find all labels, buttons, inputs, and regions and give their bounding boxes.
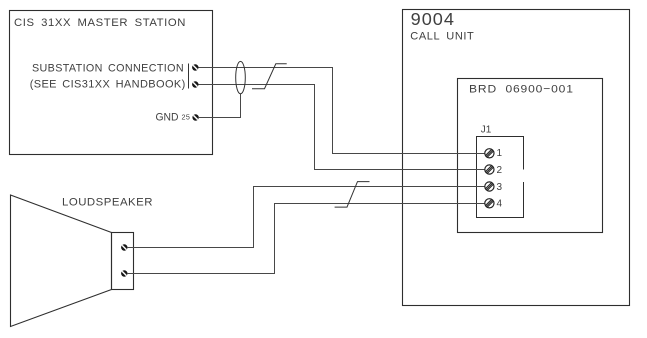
- svg-text:BRD 06900−001: BRD 06900−001: [469, 83, 574, 95]
- svg-text:(SEE CIS31XX HANDBOOK): (SEE CIS31XX HANDBOOK): [30, 78, 186, 90]
- svg-text:CIS 31XX MASTER STATION: CIS 31XX MASTER STATION: [14, 17, 186, 29]
- svg-text:SUBSTATION CONNECTION: SUBSTATION CONNECTION: [32, 62, 184, 74]
- svg-text:2: 2: [497, 165, 503, 176]
- svg-text:3: 3: [497, 182, 503, 193]
- svg-text:LOUDSPEAKER: LOUDSPEAKER: [62, 197, 153, 209]
- svg-text:GND: GND: [156, 112, 179, 124]
- svg-text:4: 4: [497, 199, 503, 210]
- svg-text:CALL UNIT: CALL UNIT: [410, 31, 474, 43]
- svg-text:1: 1: [497, 148, 503, 159]
- svg-text:9004: 9004: [411, 9, 455, 29]
- svg-text:J1: J1: [481, 124, 492, 135]
- svg-text:25: 25: [182, 113, 191, 122]
